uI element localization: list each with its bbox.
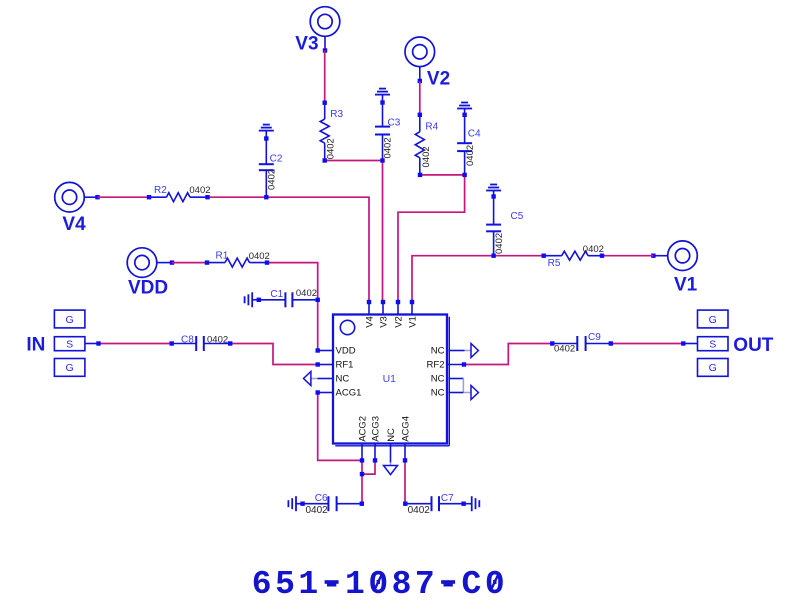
pin NC right3 of U1 xyxy=(449,392,464,394)
svg-text:V1: V1 xyxy=(674,275,698,296)
svg-text:ACG4: ACG4 xyxy=(401,416,412,442)
capacitor C7 xyxy=(403,502,407,506)
svg-text:ACG1: ACG1 xyxy=(336,388,362,399)
svg-text:V3: V3 xyxy=(379,316,390,328)
ground for C4 xyxy=(457,108,472,110)
ground for C5 xyxy=(486,190,501,192)
svg-text:C5: C5 xyxy=(511,211,524,222)
svg-text:R1: R1 xyxy=(216,251,229,262)
svg-text:V4: V4 xyxy=(62,214,86,235)
capacitor C1 xyxy=(257,298,261,302)
op-amp U1 body xyxy=(333,315,447,444)
svg-text:VDD: VDD xyxy=(336,346,356,357)
ground for C6 xyxy=(295,496,297,511)
pin RF2 of U1 xyxy=(447,364,464,366)
wire C3 node to U1 pin V3 xyxy=(382,161,384,303)
capacitor C2 xyxy=(264,136,268,140)
connector V2 xyxy=(405,37,435,67)
svg-text:V2: V2 xyxy=(394,316,405,328)
svg-text:0402: 0402 xyxy=(306,505,329,516)
svg-text:G: G xyxy=(66,314,74,326)
connector V4 xyxy=(55,182,85,212)
svg-text:0402: 0402 xyxy=(465,145,476,166)
pin ACG3 of U1 xyxy=(374,444,376,461)
pin ACG1 of U1 xyxy=(316,390,320,394)
svg-text:G: G xyxy=(66,362,74,374)
svg-text:IN: IN xyxy=(26,334,45,355)
svg-text:0402: 0402 xyxy=(583,244,604,255)
svg-text:G: G xyxy=(709,362,717,374)
capacitor C6 xyxy=(300,502,304,506)
resistor R3 xyxy=(323,101,327,105)
svg-text:0402: 0402 xyxy=(267,169,278,190)
svg-text:NC: NC xyxy=(386,428,397,442)
svg-text:C2: C2 xyxy=(270,153,283,164)
svg-text:NC: NC xyxy=(431,374,445,385)
svg-text:R4: R4 xyxy=(425,122,438,133)
svg-text:C7: C7 xyxy=(441,493,454,504)
svg-text:OUT: OUT xyxy=(733,335,774,356)
svg-text:R3: R3 xyxy=(330,109,343,120)
svg-text:0402: 0402 xyxy=(189,185,210,196)
wire ACG4 to C7 xyxy=(404,460,406,503)
wire C9 to OUT xyxy=(611,343,684,345)
wire VDD to R1 xyxy=(172,262,207,264)
connector VDD xyxy=(127,248,157,278)
svg-text:0402: 0402 xyxy=(408,505,431,516)
capacitor C4 xyxy=(462,113,466,117)
wire U1 pin RF2 to C9 xyxy=(464,344,552,365)
svg-text:C4: C4 xyxy=(468,129,481,140)
wire R3 to C3 node xyxy=(325,160,383,162)
wire C8 to U1 pin RF1 xyxy=(230,344,318,365)
port IN pads G S G xyxy=(54,310,85,328)
wire ACG3 to node xyxy=(362,460,375,474)
svg-text:C3: C3 xyxy=(388,118,401,129)
pin NC left of U1 xyxy=(318,378,334,380)
pin RF1 of U1 xyxy=(316,362,320,366)
wire ACG2 node to C6 xyxy=(361,460,363,503)
capacitor C9 xyxy=(550,341,554,345)
svg-text:V3: V3 xyxy=(295,34,318,55)
svg-text:0402: 0402 xyxy=(494,233,505,254)
svg-text:NC: NC xyxy=(336,374,350,385)
wire R2 to U1 pin V4 xyxy=(208,197,370,302)
svg-text:R5: R5 xyxy=(548,258,561,269)
svg-text:NC: NC xyxy=(431,346,445,357)
pin V4 of U1 xyxy=(367,300,371,304)
svg-text:651-1087-C0: 651-1087-C0 xyxy=(252,566,508,603)
svg-text:R2: R2 xyxy=(154,185,167,196)
wire C4 to U1 pin V2 xyxy=(398,175,465,302)
pin ACG2 of U1 xyxy=(361,444,363,461)
ground for C2 xyxy=(259,130,274,132)
svg-text:ACG2: ACG2 xyxy=(358,416,369,442)
resistor R2 xyxy=(147,195,151,199)
pin NC bottom of U1 xyxy=(390,444,392,463)
svg-text:C9: C9 xyxy=(588,332,601,343)
svg-text:V2: V2 xyxy=(427,69,450,90)
svg-text:V1: V1 xyxy=(408,316,419,328)
wire R4 to C4 xyxy=(420,174,465,176)
svg-text:U1: U1 xyxy=(383,373,397,385)
svg-text:0402: 0402 xyxy=(554,344,575,355)
ground for C1 xyxy=(251,292,253,307)
svg-text:0402: 0402 xyxy=(296,288,317,299)
connector V1 xyxy=(668,241,698,271)
svg-text:0402: 0402 xyxy=(207,335,228,346)
svg-text:ACG3: ACG3 xyxy=(371,416,382,442)
port OUT pads G S G xyxy=(698,310,729,328)
connector V3 xyxy=(310,7,340,37)
svg-text:VDD: VDD xyxy=(128,278,168,299)
wire U1 pin V1 to C5 to R5 xyxy=(412,256,544,302)
capacitor C5 xyxy=(491,194,495,198)
svg-text:RF1: RF1 xyxy=(336,360,354,371)
wire V2 to R4 xyxy=(419,81,421,115)
wire V4 to R2 xyxy=(98,196,150,198)
svg-text:0402: 0402 xyxy=(249,251,270,262)
pin V2 of U1 xyxy=(396,300,400,304)
pin V3 of U1 xyxy=(381,300,385,304)
capacitor C3 xyxy=(380,100,384,104)
resistor R4 xyxy=(418,113,422,117)
pin NC right2 of U1 xyxy=(449,378,464,380)
svg-text:0402: 0402 xyxy=(383,137,394,158)
svg-text:V4: V4 xyxy=(365,316,376,328)
pin V1 of U1 xyxy=(410,300,414,304)
resistor R5 xyxy=(542,254,546,258)
capacitor C8 xyxy=(172,343,197,345)
svg-text:C1: C1 xyxy=(270,289,283,300)
wire R5 to V1 xyxy=(602,255,653,257)
ground for C7 xyxy=(471,496,473,511)
svg-text:RF2: RF2 xyxy=(427,360,445,371)
svg-text:0402: 0402 xyxy=(421,146,432,167)
wire IN to C8 xyxy=(99,343,172,345)
pin ACG4 of U1 xyxy=(404,444,406,461)
svg-text:C8: C8 xyxy=(181,335,194,346)
svg-text:S: S xyxy=(66,339,73,351)
svg-text:0402: 0402 xyxy=(326,138,337,159)
wire R1 to C1 to U1 pin VDD xyxy=(267,263,318,351)
pin VDD of U1 xyxy=(316,348,320,352)
pin NC right1 of U1 xyxy=(449,350,465,352)
wire V3 to R3 xyxy=(324,51,326,103)
resistor R1 xyxy=(205,260,209,264)
ground for C3 xyxy=(375,94,390,96)
svg-text:S: S xyxy=(709,339,716,351)
wire U1 pin ACG1 to ACG2 node xyxy=(318,393,362,461)
svg-text:C6: C6 xyxy=(315,493,328,504)
svg-text:NC: NC xyxy=(431,388,445,399)
svg-text:G: G xyxy=(709,314,717,326)
